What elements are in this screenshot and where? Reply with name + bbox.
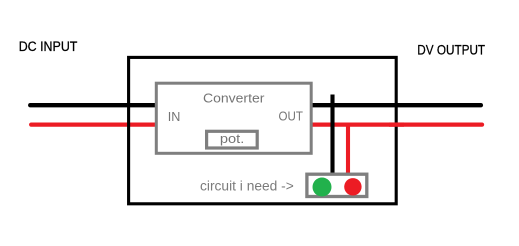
svg-text:DC INPUT: DC INPUT xyxy=(19,39,78,54)
svg-text:circuit i need ->: circuit i need -> xyxy=(200,179,294,194)
LED D1 green xyxy=(313,178,332,197)
svg-text:OUT: OUT xyxy=(279,109,303,124)
wire: black positive rail (horizontal) xyxy=(30,103,481,107)
svg-text:Converter: Converter xyxy=(203,91,265,106)
wire: black tap to LED box (vertical) xyxy=(330,95,334,177)
potentiometer box pot. xyxy=(207,131,258,148)
svg-text:pot.: pot. xyxy=(220,131,244,146)
LED indicator box xyxy=(307,174,367,196)
svg-text:IN: IN xyxy=(168,109,181,124)
converter module box xyxy=(156,83,311,153)
LED D2 red xyxy=(344,178,361,195)
enclosure box (outer black rectangle) xyxy=(129,57,397,203)
wire: red rail segment over enclosure right edge xyxy=(389,122,404,126)
svg-text:DV OUTPUT: DV OUTPUT xyxy=(417,43,485,58)
wire: red negative rail (horizontal) xyxy=(31,122,482,126)
wire: red tap to LED box (vertical) xyxy=(346,123,350,176)
